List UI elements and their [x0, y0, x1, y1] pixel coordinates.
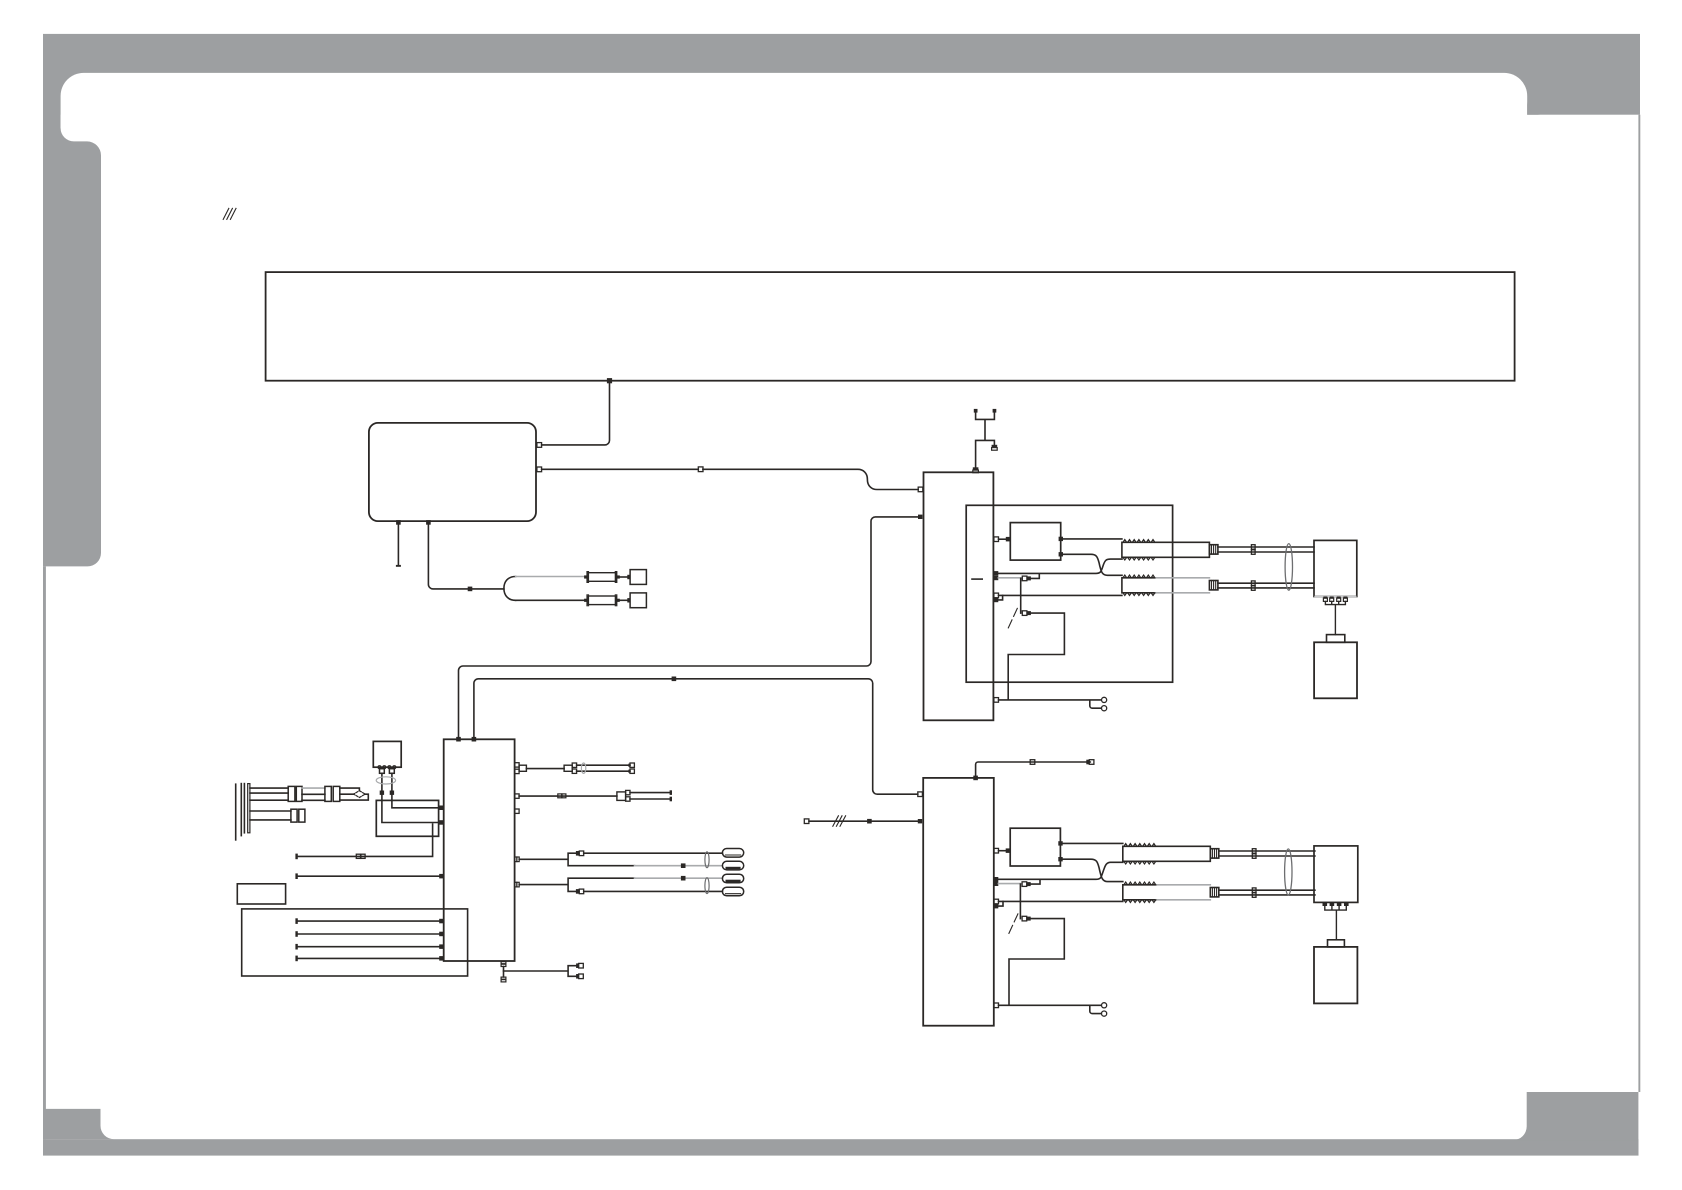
- branch from crossover wire to inline connector block 2: [1031, 880, 1040, 884]
- yoke assembly 1 upper: [1122, 540, 1314, 560]
- pin deflection box 2 left 1: [918, 792, 923, 797]
- row 2 connector body: [617, 792, 626, 801]
- block 1 sub-boundary box: [966, 505, 1172, 682]
- bottom wire fork: [504, 966, 577, 977]
- row 4 wire and fork: [519, 853, 634, 866]
- pin deflection box 2 right drive link: [994, 848, 999, 853]
- pin drive box 1 left: [1006, 537, 1011, 542]
- pin signal box top 2: [472, 737, 477, 742]
- signal box right row 2 pin: [515, 794, 519, 798]
- ferrite ring rows 5: [705, 878, 709, 894]
- pin deflection box 1 bottom feed: [994, 698, 999, 703]
- row 2 connector pins: [626, 790, 630, 794]
- inline connector block 2 upper: [1022, 882, 1027, 887]
- wire crystal lead 1 into signal box: [382, 800, 439, 822]
- wire net B: signal box top pin 2 to deflection block 2: [474, 679, 918, 794]
- pin signal box left row 1: [439, 806, 444, 811]
- pin deflection box 1 right row 3: [994, 593, 999, 598]
- stub row 4 block 2: [998, 901, 1003, 906]
- mains cable loop: [504, 577, 516, 601]
- pins deflection box 1 right pair: [994, 571, 999, 576]
- signal box right row 3 stub pin: [515, 809, 519, 813]
- antenna mast lines: [236, 784, 250, 840]
- signal box bottom connector stack: [501, 962, 506, 964]
- wire drive link block 1: [999, 538, 1006, 540]
- pin deflection box 1 left 2: [918, 515, 922, 519]
- junction on row 5 upper: [681, 876, 686, 881]
- input wire 2: [297, 933, 439, 935]
- page frame right thin line: [1638, 115, 1640, 1092]
- page frame left column: [43, 100, 61, 145]
- drive transformer box block 2: [1010, 828, 1060, 866]
- pin power box bottom 1: [396, 520, 401, 525]
- row 4 lower gray wire: [635, 865, 723, 867]
- L-shaped return wire block 1: [1008, 613, 1064, 699]
- inline connector on shield wire: [356, 854, 360, 858]
- row 5 lower connector: [576, 889, 579, 894]
- ferrite bead on crystal leads: [376, 777, 395, 784]
- row 5 wire and fork: [519, 878, 634, 891]
- row 2 wire: [519, 795, 617, 797]
- row 1 connector body: [519, 765, 526, 771]
- pin wire left end: [804, 819, 809, 824]
- crystal pins: [378, 766, 396, 769]
- vertical link wire block 2: [1019, 884, 1021, 919]
- wire with isolation marks to deflection box 2: [809, 820, 918, 822]
- yoke assembly 1 lower: [1122, 575, 1314, 595]
- antenna tip diamond: [354, 791, 366, 798]
- crystal leads: [382, 773, 392, 800]
- CRT socket pins block 2: [1323, 902, 1349, 939]
- CRT tube box block 2: [1314, 947, 1357, 1004]
- mains cable lower run: [516, 599, 584, 601]
- page frame left thin line: [43, 566, 46, 1139]
- pin deflection box 1 left 1: [918, 487, 923, 492]
- pin deflection box 2 bottom feed: [994, 1003, 999, 1008]
- CRT socket pins block 1: [1323, 597, 1347, 635]
- CRT tube box block 1: [1314, 642, 1357, 698]
- bottom fork connector lower: [576, 974, 579, 979]
- wire to yoke 1 lower: [999, 594, 1122, 596]
- junction on isolation wire: [867, 819, 872, 824]
- page frame bottom bar: [43, 1139, 1639, 1155]
- pin signal box left row 2: [439, 820, 444, 825]
- pin deflection box 2 right row 4: [994, 904, 999, 909]
- pins deflection box 2 right pair: [994, 877, 999, 882]
- junction on net B: [672, 677, 677, 682]
- ferrite ring rows 4: [705, 852, 709, 868]
- signal processing box: [444, 739, 515, 961]
- input wire 3: [297, 946, 439, 948]
- pin power box bottom 2: [426, 520, 431, 525]
- power input symbol block 1: [973, 409, 997, 473]
- wire main board to power box: [542, 383, 610, 445]
- page frame left tab: [43, 128, 101, 566]
- inline connector block 2 lower: [1022, 916, 1027, 921]
- drive transformer box block 1: [1010, 523, 1060, 561]
- CRT socket box block 2: [1314, 846, 1358, 903]
- pin deflection box 2 left 2: [918, 819, 922, 823]
- plug capsule 1: [722, 849, 743, 858]
- antenna rod 2 joint b: [299, 809, 305, 822]
- junction on main board bottom: [607, 378, 612, 383]
- wire drive 2 crossover down: [1063, 859, 1123, 881]
- mains cable upper run (gray): [516, 576, 584, 578]
- wire from shield box down-left: [297, 824, 433, 856]
- fuse and plug assembly upper: [584, 570, 646, 585]
- pin drive box 1 right 1: [1059, 537, 1063, 541]
- antenna rod 1 segment b: [302, 794, 325, 800]
- wire to yoke 2 lower: [999, 900, 1123, 902]
- junctions on crystal leads: [380, 791, 384, 795]
- signal box right row 4 pin: [515, 857, 517, 862]
- plug capsule 4: [722, 887, 743, 896]
- gray stub wire block 2: [998, 883, 1021, 885]
- wire input row y876: [297, 875, 439, 877]
- pin drive box 2 left: [1006, 848, 1011, 853]
- ferrite ring block 2: [1285, 849, 1292, 895]
- junction on mains wire: [468, 587, 473, 592]
- input group boundary box: [242, 909, 468, 976]
- fuse and plug assembly lower: [584, 593, 646, 608]
- antenna rod 1 joint a: [288, 786, 295, 801]
- input wire 4: [297, 957, 439, 959]
- antenna rod 1 joint d: [333, 786, 340, 801]
- row 4 upper connector: [576, 851, 579, 856]
- branch from crossover wire to inline connector: [1031, 574, 1039, 578]
- wire power box to mains loop: [428, 525, 504, 589]
- input wire 1: [297, 920, 439, 922]
- row 1 ferrite bead: [581, 763, 585, 773]
- wire deflection box 2 top feed: [976, 762, 1091, 778]
- antenna rod 1 joint c: [325, 786, 331, 801]
- page frame top-right fillet: [1527, 102, 1540, 115]
- L-shaped return wire block 2: [1009, 919, 1064, 1005]
- wire drive 2 to yoke 2 upper: [1063, 842, 1123, 844]
- crop marks /// top left: [223, 208, 236, 219]
- CRT anode cap block 2: [1328, 940, 1345, 947]
- end connector of top feed: [1086, 760, 1089, 765]
- yoke assembly 2 upper: [1123, 844, 1315, 864]
- crystal pin loops: [380, 769, 385, 774]
- wire crossover up to yoke 1 upper: [999, 559, 1123, 573]
- tuner shield box: [376, 800, 438, 836]
- inline connector block 1 lower: [1022, 611, 1027, 616]
- main chassis board box: [266, 272, 1515, 381]
- junction connector on top feed: [1030, 760, 1035, 765]
- terminal circle 4: [1102, 1011, 1107, 1016]
- slash mark block 1: [1008, 608, 1017, 628]
- CRT socket box block 1: [1314, 540, 1357, 596]
- row 1 pair wires: [577, 764, 630, 766]
- wire crystal lead 2 into signal box: [392, 800, 439, 807]
- antenna tip lines: [340, 788, 369, 800]
- ferrite ring block 1: [1285, 544, 1292, 591]
- pin deflection box 1 right row 4: [994, 598, 999, 603]
- deflection block 1 main box: [924, 472, 994, 720]
- page frame bottom-left block: [43, 1109, 114, 1139]
- antenna rod 2 segment: [250, 811, 291, 820]
- pin drive box 1 right 2: [1059, 552, 1063, 556]
- power supply box: [369, 423, 536, 521]
- antenna rod 1 segment a: [250, 788, 288, 800]
- CRT anode cap block 1: [1327, 635, 1345, 643]
- crystal box: [373, 741, 401, 767]
- row 1 connector 2 pins: [572, 763, 576, 767]
- vertical link wire block 1: [1020, 578, 1022, 613]
- row 5 upper gray wire: [635, 877, 723, 879]
- yoke assembly 2 lower: [1123, 882, 1315, 902]
- wire bottom feed block 1 with terminals: [999, 700, 1101, 708]
- wire left end tick: [295, 854, 297, 860]
- wire net A: signal box top pin 1 to deflection box 1: [459, 517, 919, 737]
- wire power to deflection block 1: [542, 469, 919, 489]
- pin deflection box 1 right drive link: [994, 537, 999, 542]
- junction connector on power wire: [698, 467, 703, 472]
- signal box right row 5 pin: [515, 882, 517, 887]
- plug capsule 2: [722, 861, 743, 870]
- pin deflection box 2 right row 3: [994, 899, 999, 904]
- row 2 end ticks: [670, 790, 672, 795]
- junction on row 4 lower: [681, 863, 686, 868]
- wire drive 1 crossover down: [1063, 554, 1122, 575]
- stub row 4: [998, 595, 1002, 600]
- pin power box right 2: [537, 467, 542, 472]
- wire bottom feed block 2 with terminals: [999, 1005, 1101, 1013]
- deflection block 2 main box: [923, 778, 994, 1026]
- inline connector block 1 upper: [1022, 576, 1027, 581]
- small module box left: [237, 884, 285, 904]
- row 1 connector 2 body: [564, 765, 572, 771]
- terminal circle 1: [1102, 697, 1107, 702]
- pin drive box 2 right 1: [1058, 841, 1062, 845]
- antenna rod 2 joint a: [291, 809, 297, 822]
- row 1 wire: [526, 768, 564, 770]
- dash inside deflection box 1: [972, 578, 982, 580]
- bottom fork connector upper: [576, 963, 579, 968]
- pin signal box left y876: [439, 874, 444, 879]
- pin power box right 1: [537, 443, 542, 448]
- wire crossover up to yoke 2 upper: [999, 862, 1123, 879]
- page frame bottom-right block: [1513, 1092, 1638, 1140]
- slash mark block 2: [1009, 914, 1018, 934]
- row 1 end pins: [630, 763, 634, 767]
- wire drive 1 to yoke 1 upper: [1063, 538, 1122, 540]
- pin signal box top 1: [456, 737, 461, 742]
- row 2 pair wires: [630, 792, 670, 794]
- pin deflection box 2 top: [973, 776, 978, 781]
- terminal circle 2: [1102, 706, 1107, 711]
- plug capsule 3: [722, 874, 743, 883]
- row 4 upper wire to capsule: [584, 852, 723, 854]
- row 5 lower wire to capsule: [584, 890, 723, 892]
- gray stub wire block 1: [998, 577, 1022, 579]
- test lead from power box: [397, 525, 399, 565]
- terminal circle 3: [1102, 1003, 1107, 1008]
- isolation slash marks: [833, 816, 846, 827]
- wire drive link block 2: [999, 850, 1006, 852]
- row 2 inline connector: [558, 794, 562, 798]
- page frame top bar: [43, 34, 1640, 115]
- pin drive box 2 right 2: [1058, 857, 1062, 861]
- white content area: [61, 73, 1528, 1139]
- antenna rod 1 joint b: [296, 786, 302, 801]
- signal box right row 1 pins: [515, 763, 519, 767]
